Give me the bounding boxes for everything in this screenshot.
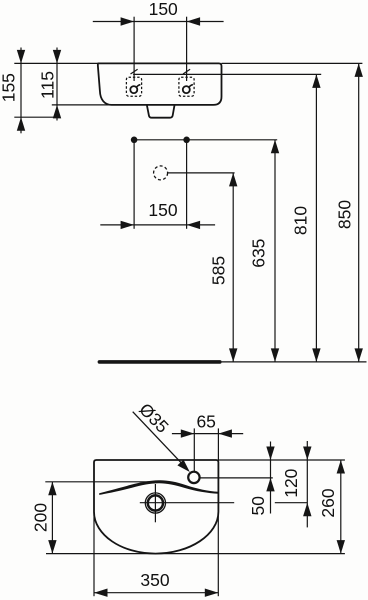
dim 850: dimension line [358,63,360,362]
dim 585: dimension line [232,173,234,362]
inner basin wavy edge [99,480,218,495]
dim 810: top arrow [312,74,320,88]
dim 260: bottom arrow [337,540,345,554]
svg-text:850: 850 [335,200,355,229]
dim 120: dimension line [306,441,308,527]
bowl bottom tangent line (200/260/350 ref) [46,553,345,555]
faucet center line (50 ref) [200,477,273,479]
drain outlet reference line [168,172,235,174]
left anchor hook glyph [130,86,137,93]
svg-text:585: 585 [209,256,229,285]
svg-text:115: 115 [38,71,58,99]
dim 810: bottom arrow [312,348,320,362]
left anchor oblique tick [131,69,138,74]
dim 635: bottom arrow [271,348,279,362]
leader arrowhead [177,460,189,472]
dim 635: dimension line [274,140,276,362]
svg-text:155: 155 [0,73,19,102]
dim 200: top arrow [48,482,56,496]
dim 150 top: right arrow [187,17,201,25]
washbasin front elevation outline [98,63,222,105]
svg-text:810: 810 [291,206,311,235]
dim 150 bottom: dimension line [100,224,215,226]
drain outlet dashed circle (585 reference) [154,166,168,180]
right edge extension line down [217,512,219,596]
top edge extension line right (260/120 ref) [218,459,345,461]
washbasin plan outline [94,460,218,554]
wave crest reference line (200 ref) [45,481,152,483]
dim 115: bottom arrow [53,105,61,119]
left bolt extension line [133,142,135,229]
dim 65: dimension line [172,433,243,435]
faucet hole extension line up [193,428,195,472]
trap bottom left extension line (155 ref) [14,116,60,118]
svg-text:120: 120 [281,468,301,497]
dim 150 top: dimension line [93,21,224,23]
dim 115: dimension line [56,48,58,121]
floor line thin [222,361,367,363]
dim 65: right arrow [218,429,232,437]
drain inner circle [148,495,163,510]
right anchor dashed box [179,77,194,96]
dim 150 bottom: right arrow [187,221,201,229]
dim 350: left arrow [94,589,108,597]
left anchor extension line [133,17,135,81]
bottom edge left extension line (115 ref) [52,104,111,106]
dim 350: dimension line [94,592,218,594]
right anchor extension line [186,17,188,81]
floor line thick [99,360,219,364]
svg-text:350: 350 [140,570,169,590]
svg-text:50: 50 [248,496,268,516]
dim 585: top arrow [229,173,237,187]
dim 155: dimension line [20,48,22,134]
left wall bolt [131,137,138,144]
dim 200: dimension line [51,482,53,554]
top edge right extension line (850 ref) [222,62,363,64]
leader line Ø35 [133,412,188,470]
dim 260: top arrow [337,460,345,474]
dim 585: bottom arrow [229,348,237,362]
dim 260: dimension line [340,460,342,554]
left anchor dashed box [126,77,141,96]
left edge extension line down [93,512,95,596]
wall bolts line (635 reference) [134,139,277,141]
dim 50: top arrow [266,447,274,461]
drain vertical crosshair [154,484,156,522]
svg-text:150: 150 [149,0,178,19]
dim 155: bottom arrow [17,117,25,131]
dim 150 bottom: left arrow [121,221,135,229]
svg-text:260: 260 [318,488,338,517]
svg-text:635: 635 [249,239,269,268]
dim 635: top arrow [271,140,279,154]
svg-text:Ø35: Ø35 [135,399,172,437]
dim 850: bottom arrow [355,348,363,362]
dim 850: top arrow [355,63,363,77]
dim 350: right arrow [205,589,219,597]
drain horizontal crosshair / 120 reference line left [140,502,234,504]
fixing holes line (810 reference) [133,73,321,75]
top edge left extension line [14,62,98,64]
right edge extension line up [217,428,219,460]
dim 120: top arrow [303,447,311,461]
right anchor oblique tick [183,69,190,74]
faucet hole [188,472,199,483]
svg-text:200: 200 [31,503,51,532]
drain outer circle [145,493,165,513]
svg-text:150: 150 [148,200,177,220]
dim 50: bottom arrow [266,478,274,492]
right wall bolt [183,137,190,144]
right bolt extension line [186,142,188,229]
120 reference line right segment [275,502,308,504]
siphon trap protrusion [147,105,175,118]
dim 150 top: left arrow [121,17,135,25]
dim 200: bottom arrow [48,540,56,554]
dim 115: top arrow [53,50,61,64]
dim 65: left arrow [181,429,195,437]
right anchor hook glyph [183,86,190,93]
dim 810: dimension line [315,74,317,362]
dim 120: bottom arrow [303,503,311,517]
svg-text:65: 65 [196,412,215,432]
dim 50: dimension line [270,442,272,514]
dim 155: top arrow [17,50,25,64]
